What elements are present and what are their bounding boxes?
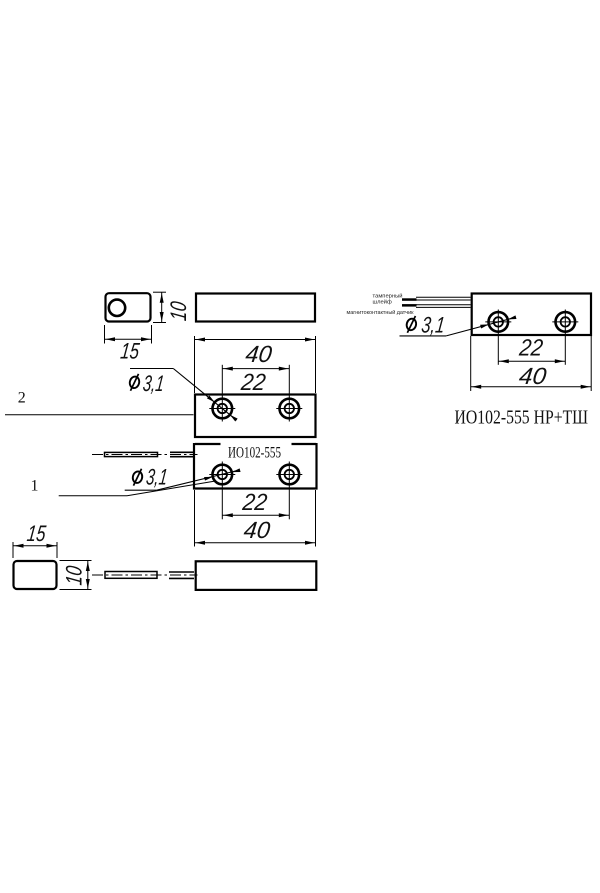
svg-text:3,1: 3,1 (145, 465, 169, 490)
svg-text:15: 15 (119, 338, 141, 363)
svg-text:магнитоконтактный датчик: магнитоконтактный датчик (347, 309, 414, 316)
svg-text:22: 22 (239, 369, 267, 395)
svg-text:3,1: 3,1 (142, 371, 166, 396)
svg-text:ИО102-555 НР+ТШ: ИО102-555 НР+ТШ (455, 406, 589, 428)
svg-text:2: 2 (18, 390, 26, 407)
svg-text:22: 22 (240, 489, 268, 515)
svg-text:3,1: 3,1 (420, 313, 446, 338)
svg-text:тамперный: тамперный (373, 293, 403, 300)
svg-text:40: 40 (518, 363, 548, 389)
svg-text:40: 40 (244, 341, 273, 367)
svg-text:40: 40 (242, 517, 271, 543)
svg-text:шлейф: шлейф (373, 299, 392, 306)
svg-text:10: 10 (62, 564, 87, 586)
svg-text:10: 10 (166, 300, 191, 322)
svg-text:15: 15 (26, 521, 48, 546)
svg-text:ИО102-555: ИО102-555 (228, 445, 281, 462)
svg-text:22: 22 (517, 335, 544, 361)
svg-text:1: 1 (31, 478, 39, 495)
